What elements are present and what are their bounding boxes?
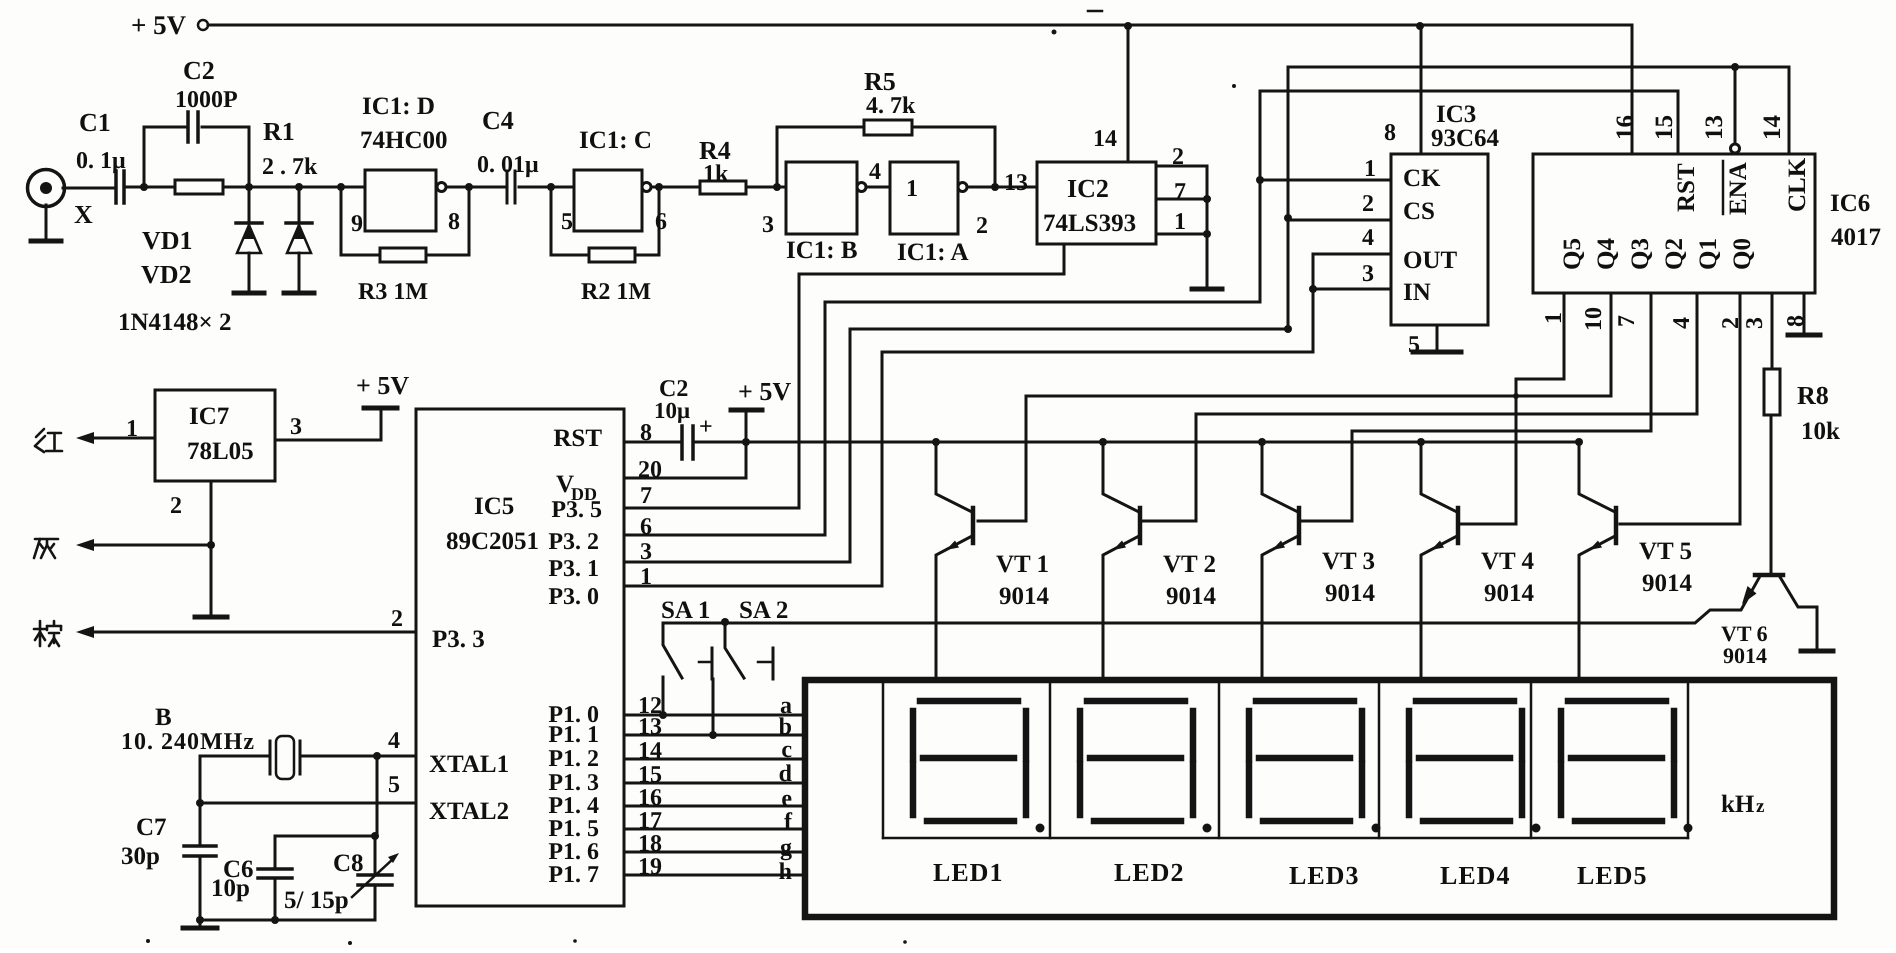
svg-text:0. 01μ: 0. 01μ — [477, 152, 539, 178]
svg-text:g: g — [780, 835, 792, 861]
svg-text:VT 5: VT 5 — [1639, 538, 1692, 565]
svg-text:P3. 3: P3. 3 — [432, 626, 485, 653]
svg-text:P1. 1: P1. 1 — [548, 722, 599, 748]
svg-text:R2 1M: R2 1M — [581, 279, 651, 305]
svg-text:9014: 9014 — [1166, 583, 1217, 610]
svg-text:d: d — [779, 761, 793, 787]
svg-text:89C2051: 89C2051 — [446, 528, 539, 555]
svg-text:VT 4: VT 4 — [1481, 548, 1535, 575]
svg-text:9: 9 — [351, 211, 363, 237]
svg-text:IC1: B: IC1: B — [786, 237, 858, 264]
svg-text:RST: RST — [553, 425, 602, 452]
svg-text:Q1: Q1 — [1695, 238, 1722, 270]
svg-text:LED1: LED1 — [933, 858, 1003, 887]
svg-text:R3 1M: R3 1M — [358, 279, 428, 305]
svg-text:LED5: LED5 — [1577, 861, 1647, 890]
svg-text:9014: 9014 — [1723, 643, 1767, 668]
svg-text:9014: 9014 — [1484, 580, 1535, 607]
svg-text:Q0: Q0 — [1729, 238, 1756, 270]
svg-text:1000P: 1000P — [175, 87, 238, 113]
svg-text:3: 3 — [290, 414, 302, 440]
svg-text:IC6: IC6 — [1830, 190, 1870, 217]
svg-text:1k: 1k — [703, 161, 729, 187]
svg-text:1: 1 — [906, 176, 918, 202]
svg-text:IC1: D: IC1: D — [362, 93, 435, 120]
svg-text:10μ: 10μ — [654, 398, 690, 423]
svg-text:0. 1μ: 0. 1μ — [76, 148, 126, 174]
svg-text:13: 13 — [1004, 170, 1028, 196]
svg-text:2: 2 — [976, 213, 988, 239]
svg-text:2: 2 — [1718, 317, 1744, 329]
svg-text:7: 7 — [640, 483, 652, 509]
svg-text:3: 3 — [1362, 261, 1374, 287]
svg-text:14: 14 — [1093, 126, 1117, 152]
svg-text:c: c — [781, 737, 792, 763]
svg-text:C1: C1 — [79, 108, 111, 137]
svg-text:C4: C4 — [482, 106, 514, 135]
svg-text:Q4: Q4 — [1593, 238, 1620, 270]
svg-text:R5: R5 — [864, 67, 896, 96]
svg-text:74LS393: 74LS393 — [1043, 210, 1136, 237]
svg-text:Q5: Q5 — [1559, 238, 1586, 270]
svg-text:10k: 10k — [1801, 418, 1840, 445]
svg-text:CLK: CLK — [1784, 157, 1811, 212]
svg-text:C2: C2 — [183, 56, 215, 85]
svg-text:8: 8 — [1384, 120, 1396, 146]
svg-text:+ 5V: + 5V — [131, 10, 187, 40]
svg-text:Q3: Q3 — [1627, 238, 1654, 270]
svg-text:4. 7k: 4. 7k — [866, 93, 916, 119]
svg-text:IC2: IC2 — [1067, 174, 1109, 203]
svg-text:74HC00: 74HC00 — [360, 127, 448, 154]
svg-text:1: 1 — [126, 416, 138, 442]
svg-text:kH: kH — [1721, 791, 1755, 818]
svg-text:Q2: Q2 — [1661, 238, 1688, 270]
svg-text:ENA: ENA — [1725, 162, 1752, 215]
svg-text:VT 1: VT 1 — [996, 551, 1049, 578]
svg-text:5: 5 — [1408, 332, 1420, 358]
svg-text:IC1: A: IC1: A — [897, 239, 969, 266]
svg-text:P1. 2: P1. 2 — [548, 746, 599, 772]
svg-text:15: 15 — [1651, 115, 1678, 140]
svg-text:2 . 7k: 2 . 7k — [262, 154, 318, 180]
svg-text:78L05: 78L05 — [187, 438, 254, 465]
svg-text:VT 2: VT 2 — [1163, 551, 1216, 578]
svg-text:30p: 30p — [121, 843, 160, 870]
svg-text:1: 1 — [1541, 312, 1567, 324]
svg-text:10: 10 — [1581, 307, 1607, 331]
svg-text:C7: C7 — [136, 814, 167, 841]
svg-text:13: 13 — [1701, 115, 1728, 140]
svg-text:+: + — [699, 414, 713, 440]
svg-text:4: 4 — [388, 728, 400, 754]
svg-text:7: 7 — [1174, 179, 1186, 205]
svg-text:VD1: VD1 — [142, 226, 193, 255]
svg-text:19: 19 — [638, 854, 662, 880]
svg-text:5/ 15p: 5/ 15p — [284, 887, 349, 914]
svg-text:13: 13 — [638, 714, 662, 740]
svg-text:10p: 10p — [211, 875, 250, 902]
svg-text:5: 5 — [388, 772, 400, 798]
svg-text:IC3: IC3 — [1436, 101, 1476, 128]
svg-text:CK: CK — [1403, 165, 1441, 192]
svg-text:VT 3: VT 3 — [1322, 548, 1375, 575]
svg-text:R8: R8 — [1797, 381, 1829, 410]
svg-text:SA 1: SA 1 — [661, 597, 710, 624]
svg-text:CS: CS — [1403, 198, 1435, 225]
svg-text:LED4: LED4 — [1440, 861, 1510, 890]
svg-text:z: z — [1756, 796, 1765, 817]
svg-text:7: 7 — [1614, 315, 1640, 327]
svg-text:14: 14 — [638, 738, 662, 764]
svg-text:f: f — [784, 809, 793, 835]
svg-text:5: 5 — [561, 209, 573, 235]
svg-text:6: 6 — [640, 514, 652, 540]
svg-text:2: 2 — [391, 606, 403, 632]
svg-text:3: 3 — [1742, 317, 1768, 329]
svg-text:1: 1 — [1364, 156, 1376, 182]
svg-text:1: 1 — [1174, 209, 1186, 235]
svg-text:6: 6 — [655, 209, 667, 235]
svg-text:LED3: LED3 — [1289, 861, 1359, 890]
svg-text:IN: IN — [1403, 279, 1431, 306]
svg-text:IC5: IC5 — [474, 493, 514, 520]
svg-text:IC7: IC7 — [189, 403, 229, 430]
svg-text:4: 4 — [1362, 225, 1374, 251]
svg-text:R1: R1 — [263, 117, 295, 146]
svg-text:+ 5V: + 5V — [356, 371, 409, 400]
svg-text:+ 5V: + 5V — [738, 377, 791, 406]
svg-text:9014: 9014 — [1325, 580, 1376, 607]
svg-text:8: 8 — [448, 209, 460, 235]
svg-text:4: 4 — [1669, 317, 1695, 329]
svg-text:P3. 0: P3. 0 — [548, 584, 599, 610]
svg-text:2: 2 — [170, 493, 182, 519]
svg-text:P1. 7: P1. 7 — [548, 862, 599, 888]
svg-text:8: 8 — [1783, 315, 1809, 327]
svg-text:3: 3 — [762, 212, 774, 238]
svg-text:SA 2: SA 2 — [739, 597, 788, 624]
svg-text:4: 4 — [869, 159, 881, 185]
svg-text:RST: RST — [1673, 163, 1700, 212]
svg-text:20: 20 — [638, 457, 662, 483]
svg-text:1N4148× 2: 1N4148× 2 — [118, 309, 232, 336]
svg-text:3: 3 — [640, 539, 652, 565]
svg-text:h: h — [779, 859, 792, 885]
svg-text:P3. 2: P3. 2 — [548, 529, 599, 555]
svg-text:10. 240MHz: 10. 240MHz — [121, 729, 255, 755]
svg-text:8: 8 — [640, 420, 652, 446]
svg-text:IC1: C: IC1: C — [579, 127, 652, 154]
svg-text:C8: C8 — [333, 850, 364, 877]
svg-text:B: B — [155, 704, 172, 731]
svg-text:OUT: OUT — [1403, 247, 1458, 274]
svg-text:2: 2 — [1172, 144, 1184, 170]
svg-text:XTAL1: XTAL1 — [429, 751, 509, 778]
svg-text:9014: 9014 — [999, 583, 1050, 610]
svg-text:X: X — [74, 200, 93, 229]
svg-text:P3. 1: P3. 1 — [548, 556, 599, 582]
svg-text:P3. 5: P3. 5 — [551, 497, 602, 523]
svg-text:1: 1 — [640, 564, 652, 590]
svg-text:4017: 4017 — [1831, 224, 1881, 251]
svg-text:14: 14 — [1759, 115, 1786, 141]
svg-text:XTAL2: XTAL2 — [429, 798, 509, 825]
svg-text:16: 16 — [1612, 115, 1639, 140]
svg-text:2: 2 — [1362, 191, 1374, 217]
svg-text:VD2: VD2 — [141, 260, 192, 289]
svg-text:LED2: LED2 — [1114, 858, 1184, 887]
svg-text:9014: 9014 — [1642, 570, 1693, 597]
svg-text:93C64: 93C64 — [1431, 125, 1500, 152]
